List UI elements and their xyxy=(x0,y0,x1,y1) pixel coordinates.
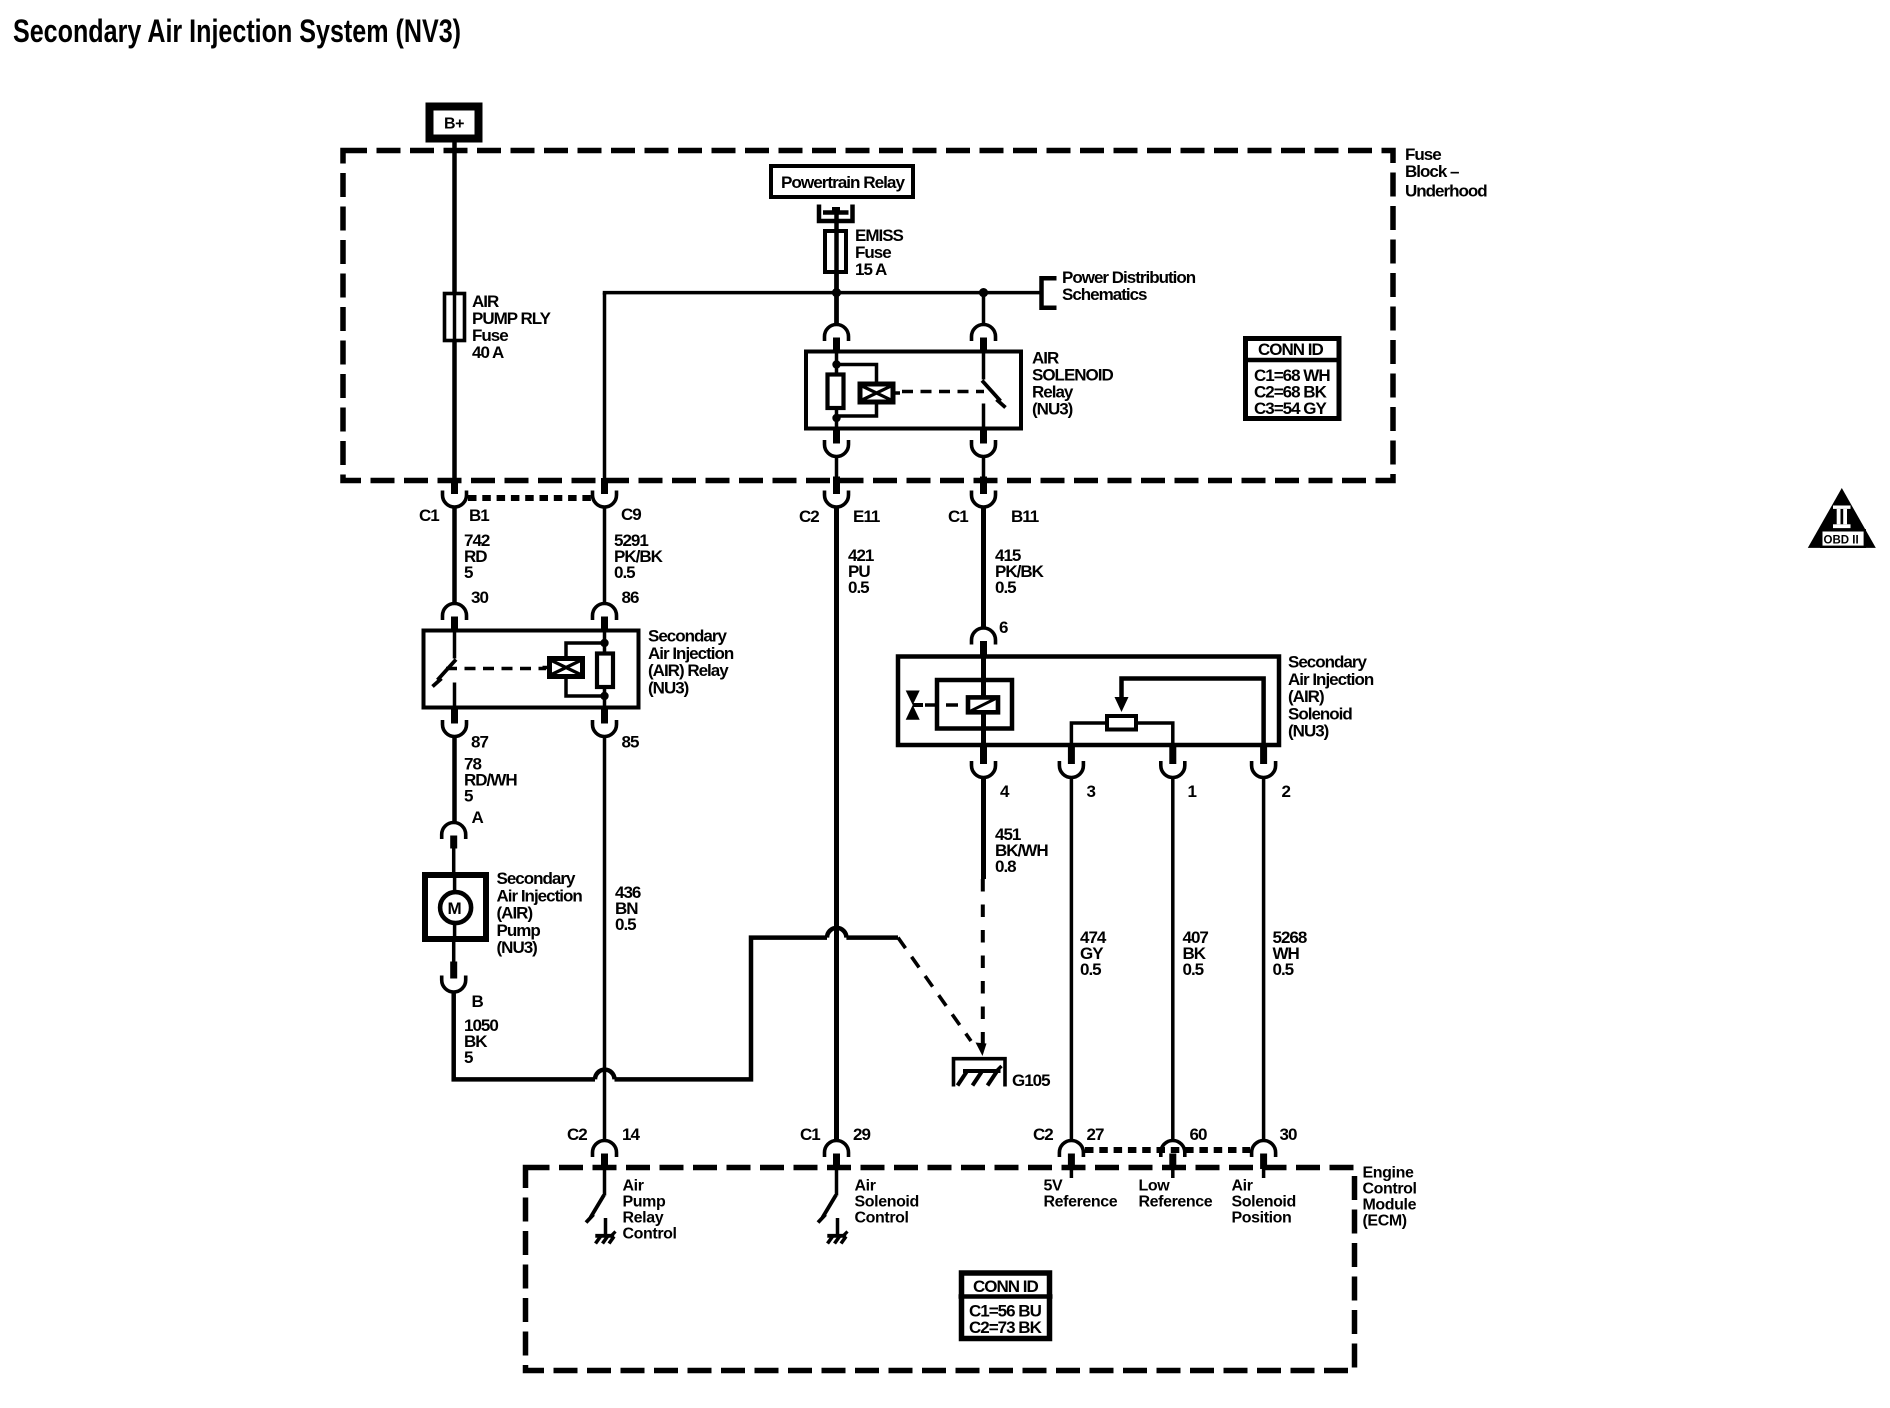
position sensor wiper arm xyxy=(1115,679,1264,746)
terminal stub through fuse block edge col B xyxy=(601,478,608,494)
svg-text:6: 6 xyxy=(999,618,1008,637)
svg-text:(ECM): (ECM) xyxy=(1363,1213,1407,1230)
svg-text:OBD II: OBD II xyxy=(1824,535,1859,547)
dotted tie line between C1/B1 and C9 xyxy=(468,495,591,501)
svg-text:15 A: 15 A xyxy=(855,260,887,279)
wire ground run segment to dashed splice xyxy=(846,935,898,940)
junction node at EMISS wire xyxy=(832,288,841,297)
svg-text:C2: C2 xyxy=(799,507,819,526)
dashed splice link to G105 xyxy=(898,938,971,1041)
svg-text:86: 86 xyxy=(622,588,639,607)
svg-text:Pump: Pump xyxy=(623,1194,666,1211)
svg-text:(AIR): (AIR) xyxy=(497,904,533,923)
relay K1 coil wire xyxy=(835,352,839,429)
wire 5291 PK/BK 0.5 xyxy=(603,507,607,604)
svg-text:1: 1 xyxy=(1188,782,1197,801)
svg-text:(AIR): (AIR) xyxy=(1288,687,1324,706)
valve actuation dashed link xyxy=(925,703,966,706)
ECM pin 30 internal stub xyxy=(1262,1169,1266,1178)
fuse F1 AIR PUMP RLY 40 A xyxy=(445,292,552,362)
relay K2 junction dot top xyxy=(600,639,608,647)
connector half circle solenoid pin 1 xyxy=(1161,761,1185,778)
svg-text:40 A: 40 A xyxy=(472,343,504,362)
relay K2 coil socket connector xyxy=(593,720,617,737)
relay K2 Secondary AIR Relay box xyxy=(424,631,639,708)
svg-text:Engine: Engine xyxy=(1363,1165,1414,1182)
label 407 BK 0.5 xyxy=(1183,928,1209,979)
wire 451 BK/WH 0.8 xyxy=(981,778,986,880)
svg-text:3: 3 xyxy=(1087,782,1096,801)
relay K1 switch socket connector xyxy=(972,440,996,457)
wire hop over 421 PU wire xyxy=(827,928,846,938)
connector half circle pin 30 xyxy=(443,604,467,621)
label Secondary Air Injection AIR Pump NU3 xyxy=(497,869,583,957)
svg-text:0.8: 0.8 xyxy=(995,857,1016,876)
wire 1050 BK 5 ground run xyxy=(454,992,595,1079)
terminal stub through fuse block edge col C xyxy=(833,477,840,495)
ECM connector row labels xyxy=(567,1125,1297,1144)
svg-text:0.5: 0.5 xyxy=(1183,960,1204,979)
terminal stub ECM pin 14 xyxy=(601,1154,608,1170)
relay K2 suppression loop xyxy=(566,643,605,659)
connector half circle ECM pin 29 xyxy=(825,1141,849,1158)
connector half circle above relay coil pin xyxy=(825,325,849,342)
svg-text:Air Injection: Air Injection xyxy=(1288,670,1374,689)
svg-text:(AIR) Relay: (AIR) Relay xyxy=(648,661,729,680)
terminal stub pin 86 xyxy=(601,617,608,631)
solenoid winding inner box xyxy=(937,680,1012,729)
svg-text:Low: Low xyxy=(1139,1178,1171,1195)
svg-text:B+: B+ xyxy=(444,116,464,133)
wire 415 PK/BK 0.5 xyxy=(981,507,986,629)
wire B+ feed down into fuse block xyxy=(452,142,457,478)
relay K2 coil wire xyxy=(603,631,607,708)
label Secondary Air Injection AIR Solenoid NU3 xyxy=(1288,653,1374,741)
label 5V Reference xyxy=(1044,1178,1118,1211)
svg-text:Air Injection: Air Injection xyxy=(648,644,734,663)
connector half circle ECM pin 27 xyxy=(1059,1141,1083,1158)
svg-text:B1: B1 xyxy=(469,506,489,525)
relay K2 switch xyxy=(433,631,457,708)
wire from bus to AIR SOLENOID relay switch xyxy=(982,293,986,325)
ECM pin 60 internal stub xyxy=(1171,1169,1175,1178)
relay K1 coil output stub xyxy=(833,429,840,444)
CONN ID table ECM xyxy=(959,1273,1053,1339)
svg-text:Secondary: Secondary xyxy=(1288,653,1367,672)
label AIR SOLENOID Relay NU3 xyxy=(1032,349,1114,419)
connector half circle solenoid pin 2 xyxy=(1252,761,1276,778)
svg-text:Schematics: Schematics xyxy=(1062,285,1147,304)
connector half circle ECM pin 30 xyxy=(1252,1141,1276,1158)
terminal stub through fuse block edge col A xyxy=(451,478,458,494)
svg-text:Secondary Air Injection System: Secondary Air Injection System (NV3) xyxy=(13,13,461,49)
connector labels row xyxy=(419,505,1039,526)
terminal stub into relay coil xyxy=(833,338,840,352)
svg-text:30: 30 xyxy=(1280,1125,1297,1144)
position sensor resistor track xyxy=(1071,716,1172,745)
connector C9 half circle xyxy=(593,491,617,508)
ground G105 symbol xyxy=(954,1059,1006,1087)
wire relay switch to fuse block edge xyxy=(982,457,986,480)
svg-text:60: 60 xyxy=(1190,1125,1207,1144)
wire 78 RD/WH 5 xyxy=(452,737,457,823)
label Air Solenoid Control xyxy=(855,1178,919,1227)
wire relay coil to fuse block edge xyxy=(835,457,839,480)
svg-text:C2=73 BK: C2=73 BK xyxy=(969,1318,1043,1337)
label 1050 BK 5 xyxy=(464,1016,498,1067)
connector half circle pump pin B xyxy=(442,976,466,993)
bus wire to Power Distribution Schematics xyxy=(605,293,1042,295)
terminal stub pin 30 xyxy=(451,617,458,631)
svg-text:29: 29 xyxy=(853,1125,870,1144)
svg-text:Position: Position xyxy=(1232,1210,1292,1227)
relay K1 coil socket connector xyxy=(825,440,849,457)
svg-text:C1: C1 xyxy=(948,507,968,526)
label 451 BK/WH 0.8 xyxy=(995,825,1048,876)
connector half circle solenoid pin 4 xyxy=(972,761,996,778)
relay K1 junction dot top xyxy=(832,360,840,368)
svg-text:Underhood: Underhood xyxy=(1405,182,1487,201)
svg-text:5: 5 xyxy=(464,787,473,806)
svg-text:85: 85 xyxy=(622,733,639,752)
svg-text:Air: Air xyxy=(623,1178,644,1195)
svg-text:0.5: 0.5 xyxy=(615,915,636,934)
label 5291 PK/BK 0.5 xyxy=(614,531,664,582)
svg-text:Control: Control xyxy=(855,1210,909,1227)
svg-text:Module: Module xyxy=(1363,1197,1417,1214)
svg-text:Solenoid: Solenoid xyxy=(1232,1194,1296,1211)
svg-text:(NU3): (NU3) xyxy=(648,678,689,697)
terminal stub solenoid pin 3 xyxy=(1068,745,1075,764)
wire 5268 WH 0.5 xyxy=(1262,778,1266,1141)
svg-text:(NU3): (NU3) xyxy=(1032,400,1073,419)
svg-text:A: A xyxy=(472,808,484,827)
label 415 PK/BK 0.5 xyxy=(995,546,1045,597)
wire 407 BK 0.5 xyxy=(1171,778,1175,1141)
label 436 BN 0.5 xyxy=(615,883,641,934)
OBD II marker triangle xyxy=(1808,488,1876,548)
svg-text:C9: C9 xyxy=(621,505,641,524)
relay K2 coil resistor element xyxy=(597,654,613,688)
terminal stub solenoid pin 4 xyxy=(980,745,987,764)
relay K2 junction dot bottom xyxy=(600,692,608,700)
svg-text:M: M xyxy=(448,899,462,918)
connector half circle pump pin A xyxy=(442,823,466,839)
svg-text:Control: Control xyxy=(1363,1181,1417,1198)
svg-text:CONN ID: CONN ID xyxy=(973,1277,1039,1296)
wire 421 PU 0.5 xyxy=(834,507,839,1141)
svg-text:C1: C1 xyxy=(800,1125,820,1144)
connector half circle ECM pin 14 xyxy=(593,1141,617,1158)
label 78 RD/WH 5 xyxy=(464,755,517,806)
wire 474 GY 0.5 xyxy=(1070,778,1074,1141)
wire from EMISS fuse to AIR SOLENOID relay coil xyxy=(834,272,839,325)
svg-text:Solenoid: Solenoid xyxy=(855,1194,919,1211)
ECM pin 27 internal stub xyxy=(1070,1169,1074,1178)
arrowhead into ground xyxy=(976,1043,987,1057)
dashed ground lead to G105 xyxy=(981,879,985,1044)
svg-text:0.5: 0.5 xyxy=(848,578,869,597)
terminal stub into relay switch xyxy=(980,338,987,352)
svg-text:C1: C1 xyxy=(419,506,439,525)
connector half circle solenoid pin 6 xyxy=(972,628,996,645)
terminal stub ECM pin 27 xyxy=(1068,1154,1075,1170)
svg-text:Solenoid: Solenoid xyxy=(1288,704,1352,723)
relay K1 coil resistor element xyxy=(828,375,844,409)
label 5268 WH 0.5 xyxy=(1273,928,1307,979)
svg-text:5: 5 xyxy=(464,563,473,582)
battery positive terminal B+ xyxy=(430,107,479,139)
pointer bracket to Power Distribution Schematics xyxy=(1042,278,1057,307)
wire ground run to G105 xyxy=(615,938,828,1080)
svg-text:G105: G105 xyxy=(1012,1071,1050,1090)
connector half circle pin 86 xyxy=(593,604,617,621)
dotted tie line ECM pins 27-60-30 xyxy=(1085,1147,1250,1153)
ECM driver switch pin 29 xyxy=(818,1169,837,1223)
svg-text:Block –: Block – xyxy=(1405,162,1459,181)
wire drop from bus to C9 connector xyxy=(603,293,607,478)
svg-text:Secondary: Secondary xyxy=(648,627,727,646)
relay K1 crossed-box suppression element xyxy=(860,384,900,402)
svg-text:B11: B11 xyxy=(1011,507,1039,526)
wire from powertrain relay to EMISS fuse xyxy=(834,210,839,325)
svg-text:5V: 5V xyxy=(1044,1178,1063,1195)
terminal stub pump pin A xyxy=(450,836,457,849)
connector half circle above relay switch pin xyxy=(972,325,996,342)
wire into pump xyxy=(452,849,456,873)
svg-text:Air: Air xyxy=(855,1178,876,1195)
motor M Secondary AIR Pump box xyxy=(425,875,486,939)
relay K1 switch xyxy=(982,352,1006,429)
relay K2 switch socket connector xyxy=(443,720,467,737)
solenoid L1 Secondary AIR Solenoid box xyxy=(898,657,1279,746)
connector C1/B11 half circle xyxy=(972,491,996,508)
svg-text:87: 87 xyxy=(471,733,488,752)
svg-text:Reference: Reference xyxy=(1139,1194,1213,1211)
label Air Pump Relay Control xyxy=(623,1178,677,1243)
terminal stub through fuse block edge col D xyxy=(980,477,987,495)
ECM internal ground pin 29 xyxy=(827,1218,847,1244)
ECM dashed box xyxy=(526,1168,1355,1371)
terminal stub solenoid pin 6 xyxy=(980,641,987,655)
relay K2 switch output stub xyxy=(451,708,458,724)
label Low Reference xyxy=(1139,1178,1213,1211)
wire hop over 436 BN wire xyxy=(595,1070,615,1080)
relay K1 switch output stub xyxy=(980,429,987,444)
fuse F2 EMISS 15 A xyxy=(825,226,904,279)
label Secondary Air Injection AIR Relay NU3 xyxy=(648,627,734,698)
Powertrain Relay box xyxy=(771,166,913,197)
terminal stub solenoid pin 1 xyxy=(1169,745,1176,764)
label Fuse Block Underhood xyxy=(1405,145,1487,201)
connector C2/E11 half circle xyxy=(825,491,849,508)
terminal stub ECM pin 30 xyxy=(1260,1154,1267,1170)
svg-text:Control: Control xyxy=(623,1226,677,1243)
junction node at solenoid relay switch wire xyxy=(979,288,988,297)
ECM driver switch pin 14 xyxy=(586,1169,605,1223)
label 421 PU 0.5 xyxy=(848,546,874,597)
svg-text:30: 30 xyxy=(471,588,488,607)
fuse block underhood dashed box xyxy=(343,151,1393,481)
wire 742 RD 5 xyxy=(452,507,457,604)
svg-text:CONN ID: CONN ID xyxy=(1258,340,1324,359)
relay K1 junction dot bottom xyxy=(832,414,840,422)
valve symbol inside solenoid xyxy=(906,691,923,720)
label Air Solenoid Position xyxy=(1232,1178,1296,1227)
relay K2 actuation dashed link xyxy=(446,667,546,670)
svg-text:E11: E11 xyxy=(853,507,880,526)
label Engine Control Module ECM xyxy=(1363,1165,1417,1230)
svg-text:0.5: 0.5 xyxy=(995,578,1016,597)
label Power Distribution Schematics xyxy=(1062,268,1196,304)
wire out of pump xyxy=(452,942,456,962)
solenoid element slashed box xyxy=(968,697,998,712)
relay K2 crossed-box suppression element xyxy=(543,659,583,677)
ECM internal ground pin 14 xyxy=(595,1218,615,1244)
svg-text:Powertrain Relay: Powertrain Relay xyxy=(781,173,906,192)
connector half circle ECM pin 60 xyxy=(1161,1141,1185,1158)
relay K1 AIR SOLENOID Relay box xyxy=(806,352,1021,429)
fuse holder bracket under Powertrain Relay xyxy=(819,205,853,222)
svg-text:2: 2 xyxy=(1282,782,1291,801)
terminal stub ECM pin 29 xyxy=(833,1154,840,1170)
svg-text:Reference: Reference xyxy=(1044,1194,1118,1211)
svg-text:Pump: Pump xyxy=(497,921,541,940)
svg-text:(NU3): (NU3) xyxy=(1288,722,1329,741)
svg-text:Secondary: Secondary xyxy=(497,869,576,888)
relay K1 actuation dashed link xyxy=(902,390,984,393)
svg-text:0.5: 0.5 xyxy=(1080,960,1101,979)
svg-text:C3=54 GY: C3=54 GY xyxy=(1254,399,1328,418)
svg-text:(NU3): (NU3) xyxy=(497,938,538,957)
svg-text:5: 5 xyxy=(464,1048,473,1067)
svg-text:27: 27 xyxy=(1087,1125,1104,1144)
svg-text:Relay: Relay xyxy=(623,1210,664,1227)
terminal stub pump pin B xyxy=(450,962,457,979)
solenoid L1 feed wire through box xyxy=(981,657,986,746)
svg-text:14: 14 xyxy=(622,1125,640,1144)
svg-text:Air: Air xyxy=(1232,1178,1253,1195)
label 474 GY 0.5 xyxy=(1080,928,1107,979)
svg-text:B: B xyxy=(472,992,484,1011)
terminal stub ECM pin 60 xyxy=(1169,1154,1176,1170)
svg-text:Air Injection: Air Injection xyxy=(497,886,583,905)
CONN ID table fuse block xyxy=(1243,339,1342,419)
relay K1 suppression loop xyxy=(837,365,877,385)
svg-text:0.5: 0.5 xyxy=(1273,960,1294,979)
relay K2 coil output stub xyxy=(601,708,608,724)
svg-text:C2: C2 xyxy=(567,1125,587,1144)
wire 436 BN 0.5 xyxy=(603,737,607,1141)
connector half circle solenoid pin 3 xyxy=(1059,761,1083,778)
connector C1/B1 half circle xyxy=(443,491,467,508)
label 742 RD 5 xyxy=(464,531,490,582)
svg-text:0.5: 0.5 xyxy=(614,563,635,582)
svg-text:C2: C2 xyxy=(1033,1125,1053,1144)
terminal stub solenoid pin 2 xyxy=(1260,745,1267,764)
